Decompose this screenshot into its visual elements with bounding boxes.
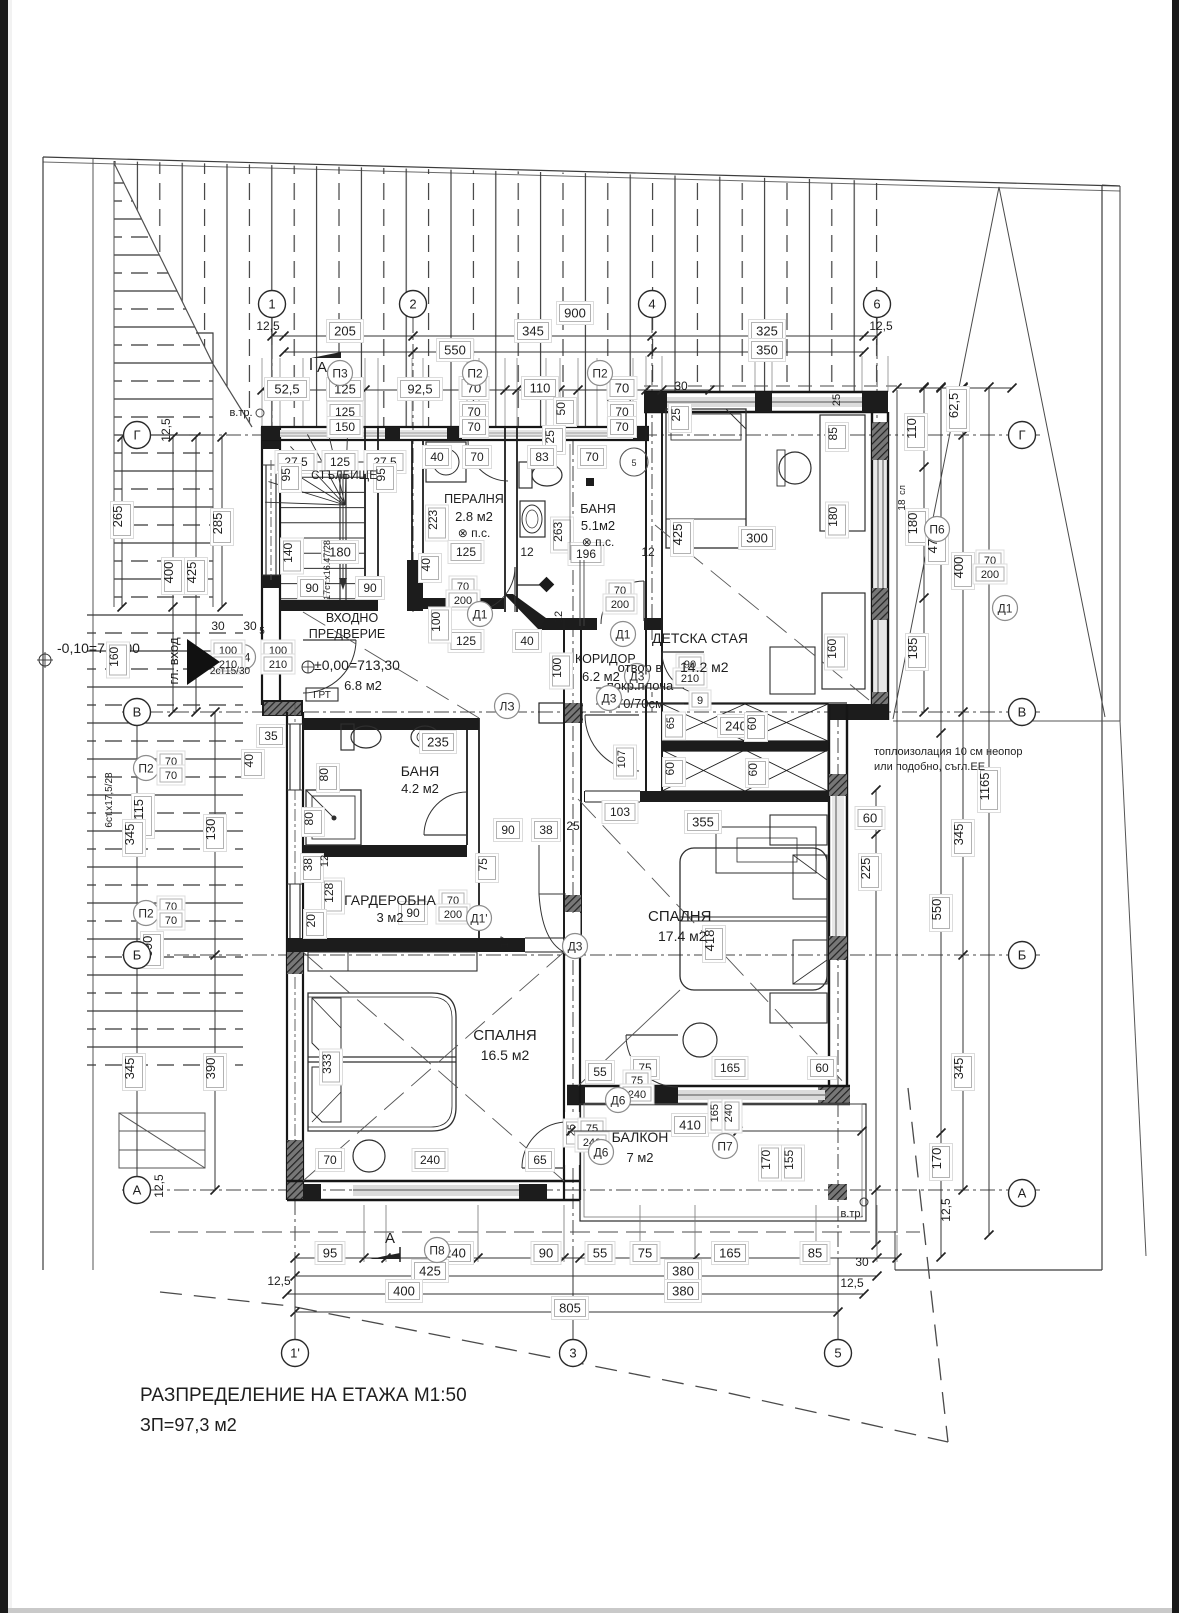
dim chain bottom row4 xyxy=(295,1311,838,1313)
svg-text:200: 200 xyxy=(444,909,462,921)
svg-text:160: 160 xyxy=(825,638,839,658)
child rug xyxy=(716,827,816,873)
axis circle 5b xyxy=(825,1340,852,1367)
bottom wall block 2 xyxy=(519,1184,547,1200)
label 40 220 xyxy=(419,554,442,583)
svg-text:263: 263 xyxy=(551,521,565,541)
dim chain right x941 xyxy=(940,387,942,1257)
bedroom1 pillow left xyxy=(312,998,341,1053)
child top wall block 3 xyxy=(862,392,888,412)
svg-text:60: 60 xyxy=(863,811,877,826)
stair-bay window band xyxy=(263,465,279,575)
svg-text:2.8 м2: 2.8 м2 xyxy=(455,509,493,524)
bedroom1 top door gap xyxy=(525,937,564,939)
svg-text:185: 185 xyxy=(905,638,920,660)
svg-text:80: 80 xyxy=(317,768,331,782)
offset dashed line above child wall xyxy=(644,385,897,387)
door marker D1 laundry xyxy=(468,602,493,627)
axis circle B left xyxy=(124,942,151,969)
dim chain right x924 xyxy=(923,387,925,712)
dim wardrobe xyxy=(399,902,428,925)
svg-text:ПЕРАЛНЯ: ПЕРАЛНЯ xyxy=(444,492,504,506)
svg-text:345: 345 xyxy=(951,824,966,846)
svg-text:гл. вход: гл. вход xyxy=(166,637,181,684)
svg-text:265: 265 xyxy=(110,506,125,528)
dim labels bottom row1 xyxy=(315,1242,345,1265)
top wall block 3 xyxy=(447,427,462,440)
svg-text:38: 38 xyxy=(301,858,315,872)
dim chain right x876 xyxy=(875,790,877,1245)
partition laundry left xyxy=(411,440,413,560)
child desk xyxy=(820,415,865,531)
site boundary slanted right lower xyxy=(1120,721,1146,1256)
dim 75 closet xyxy=(476,854,499,883)
svg-text:92,5: 92,5 xyxy=(407,382,432,397)
svg-text:70: 70 xyxy=(470,450,484,464)
axis circle G right xyxy=(1009,422,1036,449)
svg-text:25: 25 xyxy=(831,394,843,406)
svg-text:18: 18 xyxy=(897,499,908,511)
exterior wall main left xyxy=(286,712,288,1200)
svg-text:Б: Б xyxy=(1018,948,1027,963)
svg-text:95: 95 xyxy=(323,1246,337,1261)
door bath4.2 arc xyxy=(424,792,467,835)
svg-text:90: 90 xyxy=(363,581,377,595)
left edge light gap xyxy=(8,0,12,1613)
svg-text:Г: Г xyxy=(1018,428,1025,443)
dim chain left x122 xyxy=(121,437,123,607)
labels 70/200 bath door xyxy=(606,580,634,600)
svg-text:70: 70 xyxy=(615,381,629,396)
axis line 5 vertical xyxy=(837,712,839,1340)
exterior wall top (child room) xyxy=(644,391,888,393)
dim stair 90a xyxy=(298,577,327,600)
window circle P4 xyxy=(620,448,648,476)
dim bedroom1 bottom row xyxy=(316,1149,345,1172)
dim 333 bed xyxy=(320,1049,343,1085)
svg-text:16.5 м2: 16.5 м2 xyxy=(481,1047,530,1063)
door bedroom2-balcony arc xyxy=(626,1035,678,1087)
svg-text:П2: П2 xyxy=(592,366,608,380)
diag line bedroom1 solid xyxy=(303,952,564,1181)
door bath5.1 arc xyxy=(601,581,644,624)
window marker P7 balcony xyxy=(713,1134,738,1159)
svg-text:5: 5 xyxy=(631,458,636,468)
stair-bay wall block lower xyxy=(262,560,280,588)
right wall window band 2 xyxy=(874,620,886,692)
svg-text:805: 805 xyxy=(559,1301,581,1316)
stair-bay wall corner block xyxy=(262,427,280,449)
vent line and diamond xyxy=(517,584,542,586)
left hatch vertical edge xyxy=(113,161,115,607)
door marker D4 entry xyxy=(231,645,256,670)
dim labels right xyxy=(904,414,928,451)
svg-text:6ст.х17,5/28: 6ст.х17,5/28 xyxy=(104,772,115,828)
entry arrow xyxy=(187,639,220,685)
svg-text:⊗ п.с.: ⊗ п.с. xyxy=(458,526,491,540)
left wall corner hatch c xyxy=(287,1176,303,1200)
svg-text:90: 90 xyxy=(539,1246,553,1261)
axis line 3 vertical xyxy=(572,440,574,1340)
svg-text:А: А xyxy=(317,359,327,376)
right wall lower hatch 1 xyxy=(829,774,847,796)
svg-text:285: 285 xyxy=(210,513,225,535)
svg-text:90: 90 xyxy=(501,823,515,837)
corridor right wall door gap xyxy=(565,913,581,951)
partition wardrobe bottom / bedroom1 top xyxy=(287,938,525,952)
door marker D1 child xyxy=(993,596,1018,621)
axis line B horizontal xyxy=(122,954,1040,956)
door marker D3 corridor xyxy=(625,664,650,689)
closet X band 1 xyxy=(662,704,828,741)
closet mid wall xyxy=(662,741,828,750)
dim stair 140 xyxy=(281,538,304,574)
svg-text:155: 155 xyxy=(782,1149,796,1169)
svg-text:17ст.х16.47/28: 17ст.х16.47/28 xyxy=(322,540,332,600)
top wall block 1 xyxy=(261,427,280,440)
svg-text:425: 425 xyxy=(419,1264,441,1279)
bedroom2 nightstand top xyxy=(770,815,827,845)
svg-text:Д1: Д1 xyxy=(616,627,631,641)
dim chain left x222 xyxy=(221,437,223,607)
svg-text:80: 80 xyxy=(302,812,316,826)
dim chain left x196 xyxy=(195,437,197,712)
sink bath4.2 xyxy=(411,726,439,748)
window marker P2 top a xyxy=(463,361,488,386)
child sofa xyxy=(822,593,865,689)
svg-text:180: 180 xyxy=(905,513,920,535)
svg-text:38: 38 xyxy=(539,823,553,837)
left wall axis dashdot xyxy=(294,704,296,1200)
bedroom2 nightstand bottom xyxy=(770,993,827,1023)
svg-text:425: 425 xyxy=(670,524,685,546)
exterior wall right (lower) xyxy=(828,704,830,1104)
sink bath5.1 xyxy=(520,501,545,537)
right wall hatch block 3 xyxy=(872,692,888,720)
left wall hatch block b xyxy=(287,1140,303,1176)
svg-text:Д6: Д6 xyxy=(594,1145,609,1159)
top wall window fill xyxy=(280,430,633,437)
svg-text:6: 6 xyxy=(873,297,880,312)
svg-text:240: 240 xyxy=(723,1104,735,1122)
corridor shaft box xyxy=(539,703,564,723)
svg-text:БАЛКОН: БАЛКОН xyxy=(612,1129,669,1145)
svg-text:сл: сл xyxy=(897,485,907,495)
svg-text:12,5: 12,5 xyxy=(939,1198,953,1222)
partition bath4.2 top xyxy=(303,718,479,730)
svg-text:Д3: Д3 xyxy=(568,939,583,953)
svg-text:240: 240 xyxy=(420,1153,440,1167)
child left wall door gap xyxy=(647,640,661,692)
svg-text:Д1: Д1 xyxy=(998,601,1013,615)
svg-text:1165: 1165 xyxy=(977,772,992,800)
door laundry arc xyxy=(470,567,515,612)
svg-text:12,5: 12,5 xyxy=(159,418,173,442)
svg-text:60: 60 xyxy=(746,763,760,777)
labels 75/240 balcony door2 xyxy=(623,1070,651,1090)
svg-text:380: 380 xyxy=(672,1284,694,1299)
svg-text:СПАЛНЯ: СПАЛНЯ xyxy=(473,1027,536,1044)
top dim extension lines right part xyxy=(645,356,647,392)
svg-text:БАНЯ: БАНЯ xyxy=(580,501,616,516)
dim labels bottom rows xyxy=(412,1260,449,1283)
site dashed boundary right xyxy=(908,1088,948,1442)
dim closets xyxy=(718,715,755,738)
svg-text:400: 400 xyxy=(161,562,176,584)
svg-text:4: 4 xyxy=(648,297,655,312)
svg-text:30: 30 xyxy=(243,619,257,633)
bath partition lines xyxy=(579,560,581,626)
svg-text:170: 170 xyxy=(759,1149,773,1169)
partition corridor closet mid xyxy=(662,744,827,746)
dim bedroom2 bottom row xyxy=(586,1061,615,1084)
svg-text:550: 550 xyxy=(444,343,466,358)
svg-text:85: 85 xyxy=(808,1246,822,1261)
svg-text:25: 25 xyxy=(566,819,580,833)
svg-text:65: 65 xyxy=(665,717,677,729)
site dashed boundary bottom xyxy=(160,1292,948,1442)
axis line V horizontal xyxy=(122,711,1040,713)
dim ext line 6 xyxy=(876,318,878,345)
dim ext bottom 1' xyxy=(294,1258,296,1340)
dim chain right x897 xyxy=(896,390,898,1231)
left terrain hatch upper triangle xyxy=(114,163,213,607)
svg-text:ГРТ: ГРТ xyxy=(313,690,331,701)
svg-text:410: 410 xyxy=(679,1118,701,1133)
svg-text:30: 30 xyxy=(211,619,225,633)
svg-text:100: 100 xyxy=(429,611,443,631)
svg-text:12: 12 xyxy=(319,855,331,867)
door child room arc xyxy=(662,652,704,694)
svg-text:12,5: 12,5 xyxy=(152,1174,166,1198)
tree triangle symbol xyxy=(893,187,1105,719)
dim child 85 180 xyxy=(826,423,849,452)
dim chain bottom dashed xyxy=(150,1231,920,1233)
svg-text:125: 125 xyxy=(456,634,476,648)
svg-text:в.тр.: в.тр. xyxy=(840,1208,863,1220)
svg-text:Д6: Д6 xyxy=(611,1093,626,1107)
diag line bedroom2 xyxy=(578,799,847,1086)
svg-text:14.2 м2: 14.2 м2 xyxy=(680,659,729,675)
svg-text:КОРИДОР: КОРИДОР xyxy=(575,652,636,666)
svg-text:12,5: 12,5 xyxy=(840,1276,864,1290)
axis line 4 vertical xyxy=(651,318,653,712)
exterior wall top (left part) xyxy=(261,426,649,428)
label P3 otvor xyxy=(495,694,520,719)
svg-text:196: 196 xyxy=(576,547,596,561)
dim 125/40 row xyxy=(448,630,484,653)
svg-text:20: 20 xyxy=(304,914,318,928)
dim 125 mid xyxy=(448,541,484,564)
dim chain top row3 xyxy=(262,389,710,391)
svg-text:107: 107 xyxy=(616,750,628,768)
site horizontal at axis B right xyxy=(893,720,1120,722)
svg-text:6.8 м2: 6.8 м2 xyxy=(344,678,382,693)
svg-text:345: 345 xyxy=(522,324,544,339)
child top wall block 2 xyxy=(755,392,772,412)
diag vestibule xyxy=(303,612,479,718)
child top wall window 2 xyxy=(772,397,862,407)
svg-text:300: 300 xyxy=(746,531,768,546)
left hatch diagonal edge 2 xyxy=(213,364,252,427)
labels 70/200 child xyxy=(976,550,1004,570)
svg-text:СТЪЛБИЩЕ: СТЪЛБИЩЕ xyxy=(311,470,377,482)
left wall hatch block a xyxy=(287,948,303,974)
diagonal notch xyxy=(196,333,213,364)
svg-text:103: 103 xyxy=(610,805,630,819)
svg-text:12: 12 xyxy=(520,545,534,559)
bottom wall block 1 xyxy=(303,1184,321,1200)
right edge black strip xyxy=(1172,0,1179,1613)
svg-text:40: 40 xyxy=(520,634,534,648)
dim laundry top xyxy=(423,446,452,469)
dim corridor 90 xyxy=(494,819,523,842)
dim chain left lower x215 xyxy=(214,712,216,1190)
svg-text:60: 60 xyxy=(745,717,759,731)
svg-text:2: 2 xyxy=(409,297,416,312)
dim 103 xyxy=(602,801,638,824)
dim 9 otvor xyxy=(689,690,711,710)
svg-text:355: 355 xyxy=(692,815,714,830)
svg-text:205: 205 xyxy=(334,324,356,339)
svg-text:П2: П2 xyxy=(138,761,154,775)
partition bath5.1 bottom with chamfer xyxy=(539,618,597,630)
exterior wall bottom (bedroom 17.4) xyxy=(567,1085,850,1087)
svg-text:П2: П2 xyxy=(467,366,483,380)
axis line 1 vertical xyxy=(271,318,273,437)
svg-text:П8: П8 xyxy=(429,1243,445,1257)
dim chain right x989 xyxy=(988,387,990,1235)
door marker D3 corridor3 xyxy=(597,686,622,711)
svg-text:200: 200 xyxy=(981,569,999,581)
exterior wall stair-bay left xyxy=(261,427,263,705)
svg-text:ПРЕДВЕРИЕ: ПРЕДВЕРИЕ xyxy=(309,627,385,641)
svg-text:Д1': Д1' xyxy=(470,911,487,925)
dim ext bottom 3 xyxy=(572,1258,574,1340)
svg-text:ДЕТСКА СТАЯ: ДЕТСКА СТАЯ xyxy=(652,630,748,646)
svg-text:А: А xyxy=(133,1183,142,1198)
svg-text:400: 400 xyxy=(951,557,966,579)
svg-text:В: В xyxy=(133,705,142,720)
right wall window band 1 xyxy=(874,460,886,588)
svg-text:110: 110 xyxy=(530,381,551,396)
left edge black strip xyxy=(0,0,8,1613)
svg-text:5: 5 xyxy=(834,1346,841,1361)
section marker A top xyxy=(311,352,341,358)
svg-text:30: 30 xyxy=(674,379,688,393)
toilet bath4.2 xyxy=(341,724,354,750)
step wall at axis V xyxy=(262,700,303,716)
svg-text:62,5: 62,5 xyxy=(946,393,961,418)
site boundary bottom right vertical xyxy=(894,1231,896,1270)
svg-text:5: 5 xyxy=(259,626,265,637)
svg-text:Д3: Д3 xyxy=(602,691,617,705)
bedroom2 pillow top xyxy=(793,855,827,899)
axis circle 3b xyxy=(560,1340,587,1367)
section marker A bottom xyxy=(370,1253,400,1259)
labels 75/240 balcony door1 xyxy=(578,1118,606,1138)
dim 418 xyxy=(702,926,726,963)
svg-text:400: 400 xyxy=(393,1284,415,1299)
svg-text:125: 125 xyxy=(330,455,350,469)
bottom wall2 block b xyxy=(640,1086,678,1104)
step wall right at axis V xyxy=(829,704,888,720)
dim chain right top ticks xyxy=(897,387,1012,389)
site boundary right top joiner xyxy=(1102,185,1120,186)
staircase treads and rail xyxy=(265,425,365,600)
window marker D3 top xyxy=(328,361,353,386)
shower bath4.2 xyxy=(306,790,361,845)
axis circle 1b xyxy=(282,1340,309,1367)
dim stair side xyxy=(279,464,302,493)
svg-text:12: 12 xyxy=(641,545,655,559)
bedroom1 east door gap xyxy=(565,1112,580,1165)
svg-text:30: 30 xyxy=(855,1255,869,1269)
svg-text:128: 128 xyxy=(322,882,336,902)
svg-text:165: 165 xyxy=(719,1246,741,1261)
svg-text:35: 35 xyxy=(264,729,278,743)
dim 355 xyxy=(685,811,722,834)
left wall window 2 xyxy=(288,884,302,948)
dim child 425 300 xyxy=(670,520,694,557)
svg-text:110: 110 xyxy=(904,418,919,439)
partition bath chamfer wall xyxy=(504,594,546,630)
level mark entry xyxy=(302,661,314,673)
child top wall block 1 xyxy=(644,392,667,412)
svg-text:П3: П3 xyxy=(332,366,348,380)
svg-text:В: В xyxy=(1018,705,1027,720)
diag line child xyxy=(655,525,869,700)
partition bedroom2 top door gap xyxy=(585,791,640,802)
door marker D6 b1 xyxy=(589,1140,614,1165)
svg-text:П6: П6 xyxy=(929,522,945,536)
svg-text:200: 200 xyxy=(454,595,472,607)
svg-text:⊗ п.с.: ⊗ п.с. xyxy=(582,535,615,549)
labels 165/240 balcony P7 xyxy=(708,1099,728,1133)
right wall hatch block 1 xyxy=(872,422,888,460)
svg-text:70: 70 xyxy=(615,420,629,434)
dim labels left xyxy=(110,502,134,539)
bath4.2 right door gap xyxy=(468,735,478,790)
bedroom2 pillow bottom xyxy=(793,940,827,984)
GRT box xyxy=(306,688,338,701)
svg-text:ЛЗ: ЛЗ xyxy=(499,699,514,713)
site boundary right vertical 2 xyxy=(1119,186,1121,721)
labels 70/200 laundry door xyxy=(449,576,477,596)
axis circle G left xyxy=(124,422,151,449)
axis circle 4 xyxy=(639,291,666,318)
door marker D3 corridor2 xyxy=(563,934,588,959)
roof hatch band (vertical stripes) xyxy=(114,161,888,427)
dim chain right x963 xyxy=(962,387,964,1190)
svg-text:12,5: 12,5 xyxy=(267,1274,291,1288)
axis circle V left xyxy=(124,699,151,726)
svg-text:Б: Б xyxy=(133,948,142,963)
dim stair 180 xyxy=(322,541,359,564)
partition bedroom2 top wall xyxy=(584,791,829,802)
balcony vtr circle xyxy=(860,1198,868,1206)
svg-text:85: 85 xyxy=(826,427,840,441)
partition vestibule-laundry bottom wall xyxy=(407,598,504,609)
svg-text:СПАЛНЯ: СПАЛНЯ xyxy=(648,908,711,925)
site boundary right vertical xyxy=(1101,185,1103,1270)
axis circle A right xyxy=(1009,1180,1036,1207)
svg-text:225: 225 xyxy=(858,858,873,880)
svg-text:или подобно, съгл.ЕЕ: или подобно, съгл.ЕЕ xyxy=(874,761,985,773)
svg-text:12,5: 12,5 xyxy=(256,319,280,333)
axis circle 6 xyxy=(864,291,891,318)
svg-text:Г: Г xyxy=(133,428,140,443)
